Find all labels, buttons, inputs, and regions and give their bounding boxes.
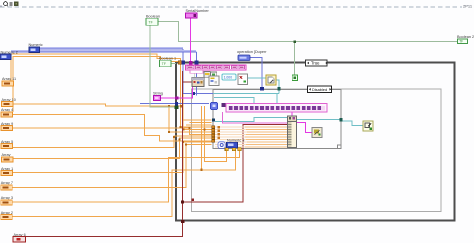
disable selector label Disabled — [308, 86, 332, 93]
tall build-array node — [288, 116, 297, 148]
wire inner drop b — [195, 64, 197, 96]
SerialNumber terminal — [186, 9, 210, 18]
icon C VI — [209, 76, 219, 86]
blue tunnel on case left — [175, 102, 178, 105]
blue round icon — [218, 142, 225, 149]
wire Array 6 main — [26, 71, 183, 237]
Boolean 2 terminal — [457, 35, 474, 44]
wire teal jog to node — [215, 118, 288, 122]
wire Array 7 — [11, 145, 212, 188]
wire teal from icon E — [248, 77, 267, 79]
wire teal main — [213, 93, 279, 95]
wire density a — [183, 119, 212, 121]
inner frame corner handle — [338, 145, 342, 149]
diagram disable structure frame — [192, 89, 442, 212]
toolbar icon pause — [14, 2, 18, 6]
left array terminals — [1, 77, 26, 237]
junction blue — [192, 92, 195, 95]
wire extra vertical — [201, 106, 203, 170]
frame bottom tunnels — [225, 148, 241, 151]
icon X picture — [312, 128, 322, 138]
green junction — [293, 40, 296, 43]
blue wires — [11, 49, 262, 104]
numeric box D — [222, 74, 236, 80]
wire teal node out — [297, 119, 342, 121]
svg-text:TF: TF — [459, 40, 463, 44]
svg-text:Numeric 3: Numeric 3 — [227, 138, 244, 142]
wire Array 2 — [11, 151, 236, 217]
svg-text:Boolean 2: Boolean 2 — [457, 35, 474, 39]
wire Array 9b jog — [12, 115, 212, 141]
case selector label True — [306, 60, 328, 66]
svg-text:TF: TF — [149, 20, 153, 24]
tunnel blue on disable border — [260, 87, 264, 91]
svg-text:2P11: 2P11 — [463, 3, 473, 8]
purple cap icon of row 2 — [221, 103, 225, 107]
orange junction dots — [168, 105, 206, 171]
pink array row 2 — [226, 104, 327, 113]
red junction on case bottom — [181, 220, 184, 223]
wire teal from file icon — [276, 80, 279, 94]
Numeric 2 terminal — [0, 51, 18, 60]
String terminal — [153, 92, 163, 101]
toolbar icon abort — [9, 2, 12, 6]
icon B scan VI — [192, 78, 204, 87]
wire Array 1 — [12, 142, 212, 173]
icon E convert — [238, 74, 248, 85]
Boolean 1 terminal — [159, 56, 176, 66]
blue icon 2 (format) — [211, 103, 218, 110]
wire node to icon X — [297, 123, 313, 133]
tunnel orange on case top border — [178, 61, 181, 65]
tunnel blue 1 — [181, 61, 185, 65]
tunnel orange on case left border — [175, 105, 179, 109]
wire density c — [186, 124, 212, 126]
wire Array 11 via top band — [11, 54, 212, 127]
wire green inner — [194, 70, 196, 78]
wire Boolean 1 stub — [171, 63, 176, 65]
svg-text:True: True — [311, 61, 320, 66]
wire operation enum — [250, 58, 262, 88]
wire Numeric 2 long — [11, 51, 197, 53]
red junction at node — [289, 123, 292, 126]
svg-text:TF: TF — [162, 62, 166, 66]
teal tunnel on frame left — [212, 118, 215, 121]
wire numeric drop 2 — [196, 52, 198, 61]
wire numeric drop 1 — [182, 49, 184, 61]
blue constant box — [227, 142, 238, 147]
wire Array — [13, 138, 212, 159]
magenta tunnel on case top — [189, 61, 192, 64]
green wires — [150, 22, 458, 108]
wire red branch right — [183, 125, 290, 203]
wire density b — [190, 122, 212, 124]
svg-text:Boolean: Boolean — [146, 14, 160, 18]
teal tunnel on disable border — [278, 87, 281, 90]
tunnel blue 2 — [195, 61, 199, 65]
red junction small — [191, 198, 194, 201]
wire blue mid — [140, 103, 209, 105]
Boolean terminal (top) — [146, 14, 160, 25]
toolbar edge mark — [0, 6, 2, 8]
green constant — [292, 75, 297, 81]
wire branch to tunnel 1 — [205, 106, 227, 161]
wire Array 9 — [12, 128, 212, 135]
wire to green constant — [294, 42, 296, 76]
icon W write key — [363, 121, 373, 131]
file write icon — [266, 75, 276, 85]
wire Array 4 jog — [13, 57, 212, 130]
svg-text:Disabled: Disabled — [312, 87, 327, 92]
wire Numeric — [39, 48, 183, 50]
teal wires — [213, 78, 363, 126]
wire Array 10 via top band — [13, 104, 177, 106]
case structure frame — [176, 63, 455, 221]
wire String — [161, 87, 193, 98]
junction squares column 2 — [218, 126, 220, 139]
ladder wires inside frame — [215, 127, 247, 147]
red junction T — [181, 201, 184, 204]
teal junction on frame border — [339, 118, 342, 121]
pink array row 1 — [186, 65, 247, 70]
Numeric terminal — [29, 43, 43, 52]
wire teal second — [214, 98, 254, 104]
svg-text:1.000: 1.000 — [224, 75, 233, 79]
svg-text:operation [Duperr: operation [Duperr — [237, 50, 267, 54]
toolbar icon run button — [4, 2, 8, 6]
wire teal to icon W — [341, 121, 363, 126]
wires: orange array wires — [11, 54, 240, 217]
wire inner drop — [178, 105, 181, 107]
wire Array 5 — [12, 136, 212, 148]
wire Array 3 — [11, 151, 240, 202]
wire SerialNumber down — [190, 19, 192, 66]
operation enum constant — [238, 55, 250, 61]
pink sub box — [190, 70, 203, 73]
wire highlight numeric — [39, 47, 183, 49]
wire green drop to case selector — [150, 26, 175, 108]
wire Boolean to Boolean 2 — [158, 22, 458, 42]
icon A1 — [204, 72, 210, 78]
red / dark red wires — [26, 71, 290, 237]
magenta tunnel on case left — [175, 96, 178, 99]
wire numeric inner 1 — [183, 64, 213, 94]
icon A2 — [211, 72, 217, 78]
Numeric 3 cluster — [218, 138, 244, 148]
svg-text:SerialNumber: SerialNumber — [186, 9, 210, 13]
wire branch to ladder 3 — [169, 106, 212, 132]
magenta wires — [161, 19, 313, 133]
wire row2 to node — [291, 112, 293, 116]
inner sub frame — [213, 90, 341, 149]
dashed disable border top — [0, 6, 462, 8]
frame left tunnels column — [212, 126, 215, 142]
svg-text:String: String — [153, 92, 163, 96]
Array 6 red terminal — [13, 237, 26, 243]
